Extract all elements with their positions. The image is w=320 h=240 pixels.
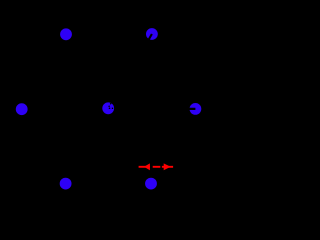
wire spoke v4-v1 [66, 34, 108, 108]
motion arrow dash segment a [139, 166, 150, 168]
node v2 (top right vertex) [146, 28, 158, 40]
node v6 (bottom left vertex) [60, 178, 72, 190]
wire edge v3-v1 (upper left) [22, 34, 66, 109]
wire spoke v4-v7 [108, 108, 151, 183]
node v5 (right vertex) [190, 103, 202, 115]
wire dashed edge over node v4 toward v5 (specks) [109, 107, 115, 109]
motion arrow dash segment b [153, 166, 161, 168]
wire dashed edge over node v4 toward v2 (specks) [109, 100, 113, 107]
wire edge v4-v2 drawn over node v2 (notch) [129, 34, 152, 74]
wire spoke v4-v3 [22, 107, 109, 110]
wire edge v2-v5 (upper right) [152, 34, 196, 109]
node v3 (left vertex) [16, 103, 28, 115]
node v7 (bottom right vertex) [145, 178, 157, 190]
node v1 (top left vertex) [60, 28, 72, 40]
wire edge v5-v7 (lower right) [151, 109, 195, 184]
motion arrow dash segment c [162, 166, 173, 168]
motion arrow left head [144, 163, 150, 170]
wire edge v6-v3 (lower left) [22, 109, 65, 183]
wire edge v4-v5 drawn over node v5 (notch) [151, 107, 195, 110]
node v4 (center vertex) [102, 102, 114, 114]
wire edge v7-v6 (bottom) [65, 183, 151, 185]
wire spoke v4-v6 [65, 108, 108, 183]
motion arrow right head [164, 163, 171, 170]
wire edge v1-v2 (top) [66, 33, 152, 35]
